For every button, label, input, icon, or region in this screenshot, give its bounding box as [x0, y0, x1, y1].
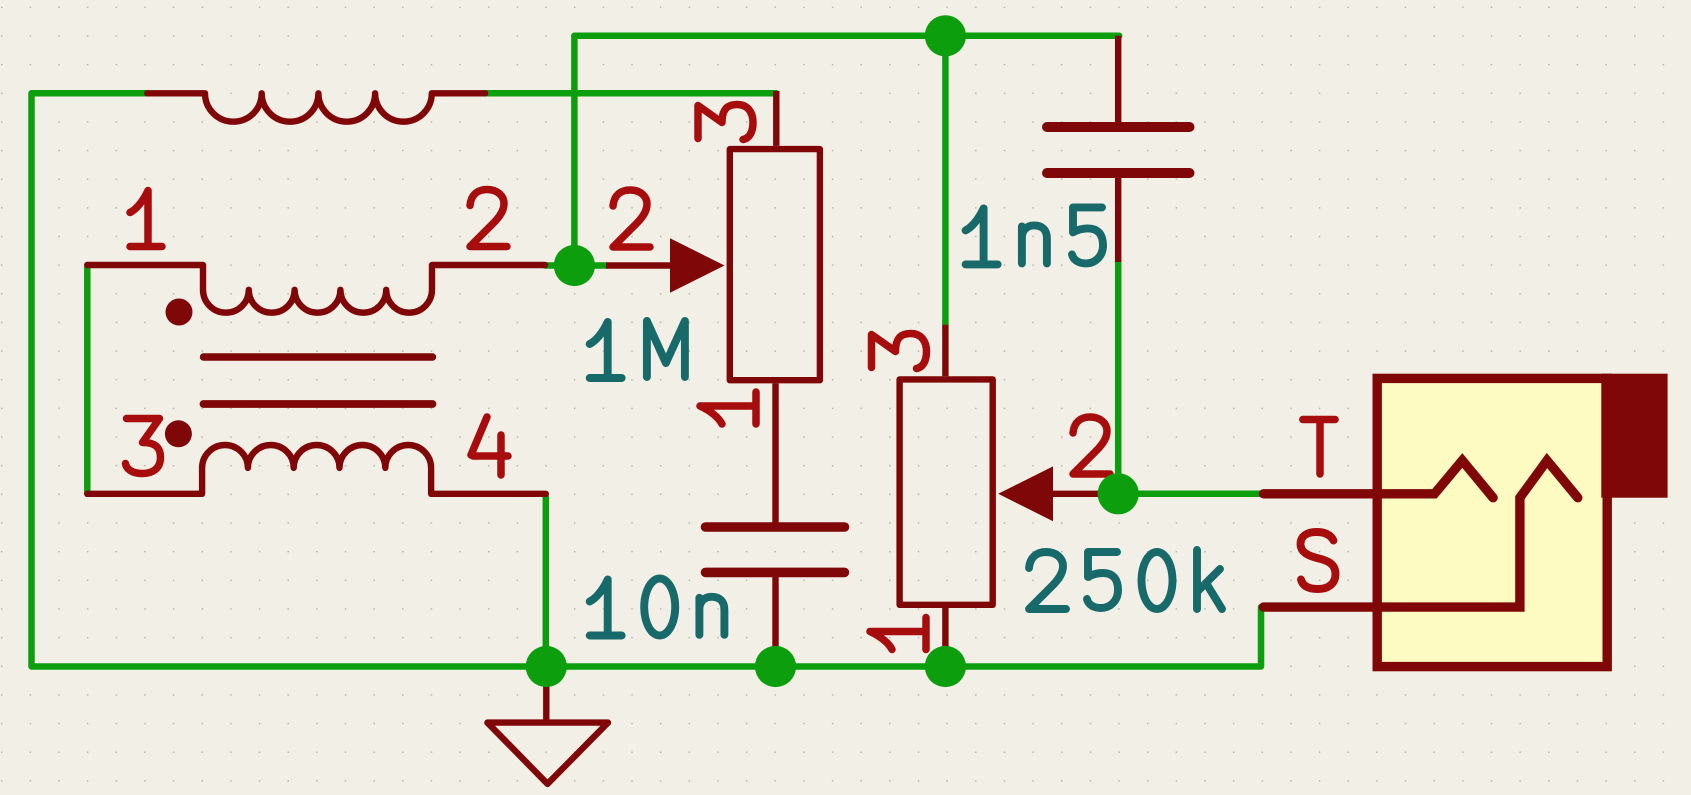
potentiometer RV2 pin 1 lead: [942, 608, 948, 667]
wire vertical from top bus down to transformer pin2 node: [571, 36, 578, 266]
junction node B (top bus): [925, 15, 966, 56]
potentiometer RV2 body: [900, 379, 993, 604]
transformer T1 core bar lower: [204, 400, 433, 408]
capacitor C2 bottom plate: [1047, 168, 1190, 178]
audio jack J1 tip contact (pin T): [1264, 461, 1494, 498]
capacitor C1 bottom plate: [706, 568, 845, 578]
potentiometer RV1 body: [730, 149, 820, 380]
pin number 1 (RV1, rotated): [700, 392, 756, 424]
wire vertical from top bus node down to RV2 pin3: [942, 36, 949, 325]
transformer T1 primary phase dot: [166, 299, 193, 326]
audio jack J1 sleeve contact (pin S): [1264, 461, 1578, 608]
pin number 2 (RV1 wiper): [613, 190, 650, 247]
capacitor C2 bottom lead: [1115, 178, 1121, 262]
potentiometer RV1 wiper arrow: [670, 238, 725, 293]
value label 1M: [590, 322, 622, 378]
potentiometer RV2 wiper line: [1051, 491, 1110, 497]
pin number 4 (transformer): [471, 417, 508, 475]
audio jack J1 body: [1377, 378, 1607, 666]
junction node C (RV2 wiper / C2 / jack tip): [1098, 473, 1139, 514]
transformer T1 core bar upper: [204, 353, 433, 360]
transformer T1 secondary phase dot: [165, 420, 192, 447]
pin number 3 (RV2, rotated): [872, 334, 927, 369]
potentiometer RV1 pin 1 lead down to C1: [772, 383, 778, 523]
pin number 3 (RV1, rotated): [698, 105, 753, 140]
capacitor C1 top plate: [706, 522, 845, 532]
pin number 2 (transformer): [470, 190, 507, 247]
transformer T1 secondary winding (pins 3-4): [87, 445, 546, 494]
value label 250k: [1029, 552, 1066, 609]
capacitor C2 top plate: [1047, 122, 1190, 132]
wire transformer pin1 to pin3: [84, 265, 91, 494]
pin number 1 (RV2, rotated): [870, 618, 926, 650]
transformer T1 primary winding (pins 1-2): [87, 265, 545, 313]
capacitor C2 top lead: [1115, 36, 1121, 122]
junction node GND3 (RV2 pin1): [925, 646, 966, 687]
junction node A (T1 pin2 / RV1 wiper): [554, 245, 595, 286]
capacitor C1 bottom lead: [772, 577, 778, 667]
wire C2 bottom to RV2 wiper node: [1115, 262, 1122, 494]
potentiometer RV1 pin 3 lead: [773, 91, 779, 146]
value label 10n: [590, 580, 622, 636]
value label 1n5: [966, 208, 998, 264]
pin number 2 (RV2 wiper): [1073, 417, 1110, 474]
ground stub: [543, 667, 549, 723]
wire transformer pin2 to RV1 wiper: [545, 262, 606, 269]
potentiometer RV1 wiper line: [606, 262, 672, 268]
junction node GND2 (C1 bottom): [755, 646, 796, 687]
wire left loop: top-left feedback loop and bottom bus: [32, 93, 1265, 666]
wire from L1 right lead to RV1 pin3 corner: [485, 90, 776, 97]
pin name S: [1301, 532, 1336, 589]
wire top bus from node above RV1 to C2 top: [574, 33, 1119, 40]
inductor L1 (antenna coil): [147, 93, 485, 121]
audio jack J1 bushing: [1601, 374, 1667, 498]
junction node GND1 (ground bus): [526, 646, 567, 687]
potentiometer RV2 pin 3 lead: [942, 325, 948, 377]
wire transformer pin4 down to ground bus: [543, 497, 550, 667]
potentiometer RV2 wiper arrow: [998, 466, 1053, 521]
wire RV2 wiper node to jack tip pin: [1118, 491, 1264, 498]
pin number 3 (transformer): [126, 419, 161, 474]
pin number 1 (transformer): [130, 191, 162, 247]
ground triangle: [487, 723, 608, 784]
pin name T: [1303, 420, 1335, 475]
